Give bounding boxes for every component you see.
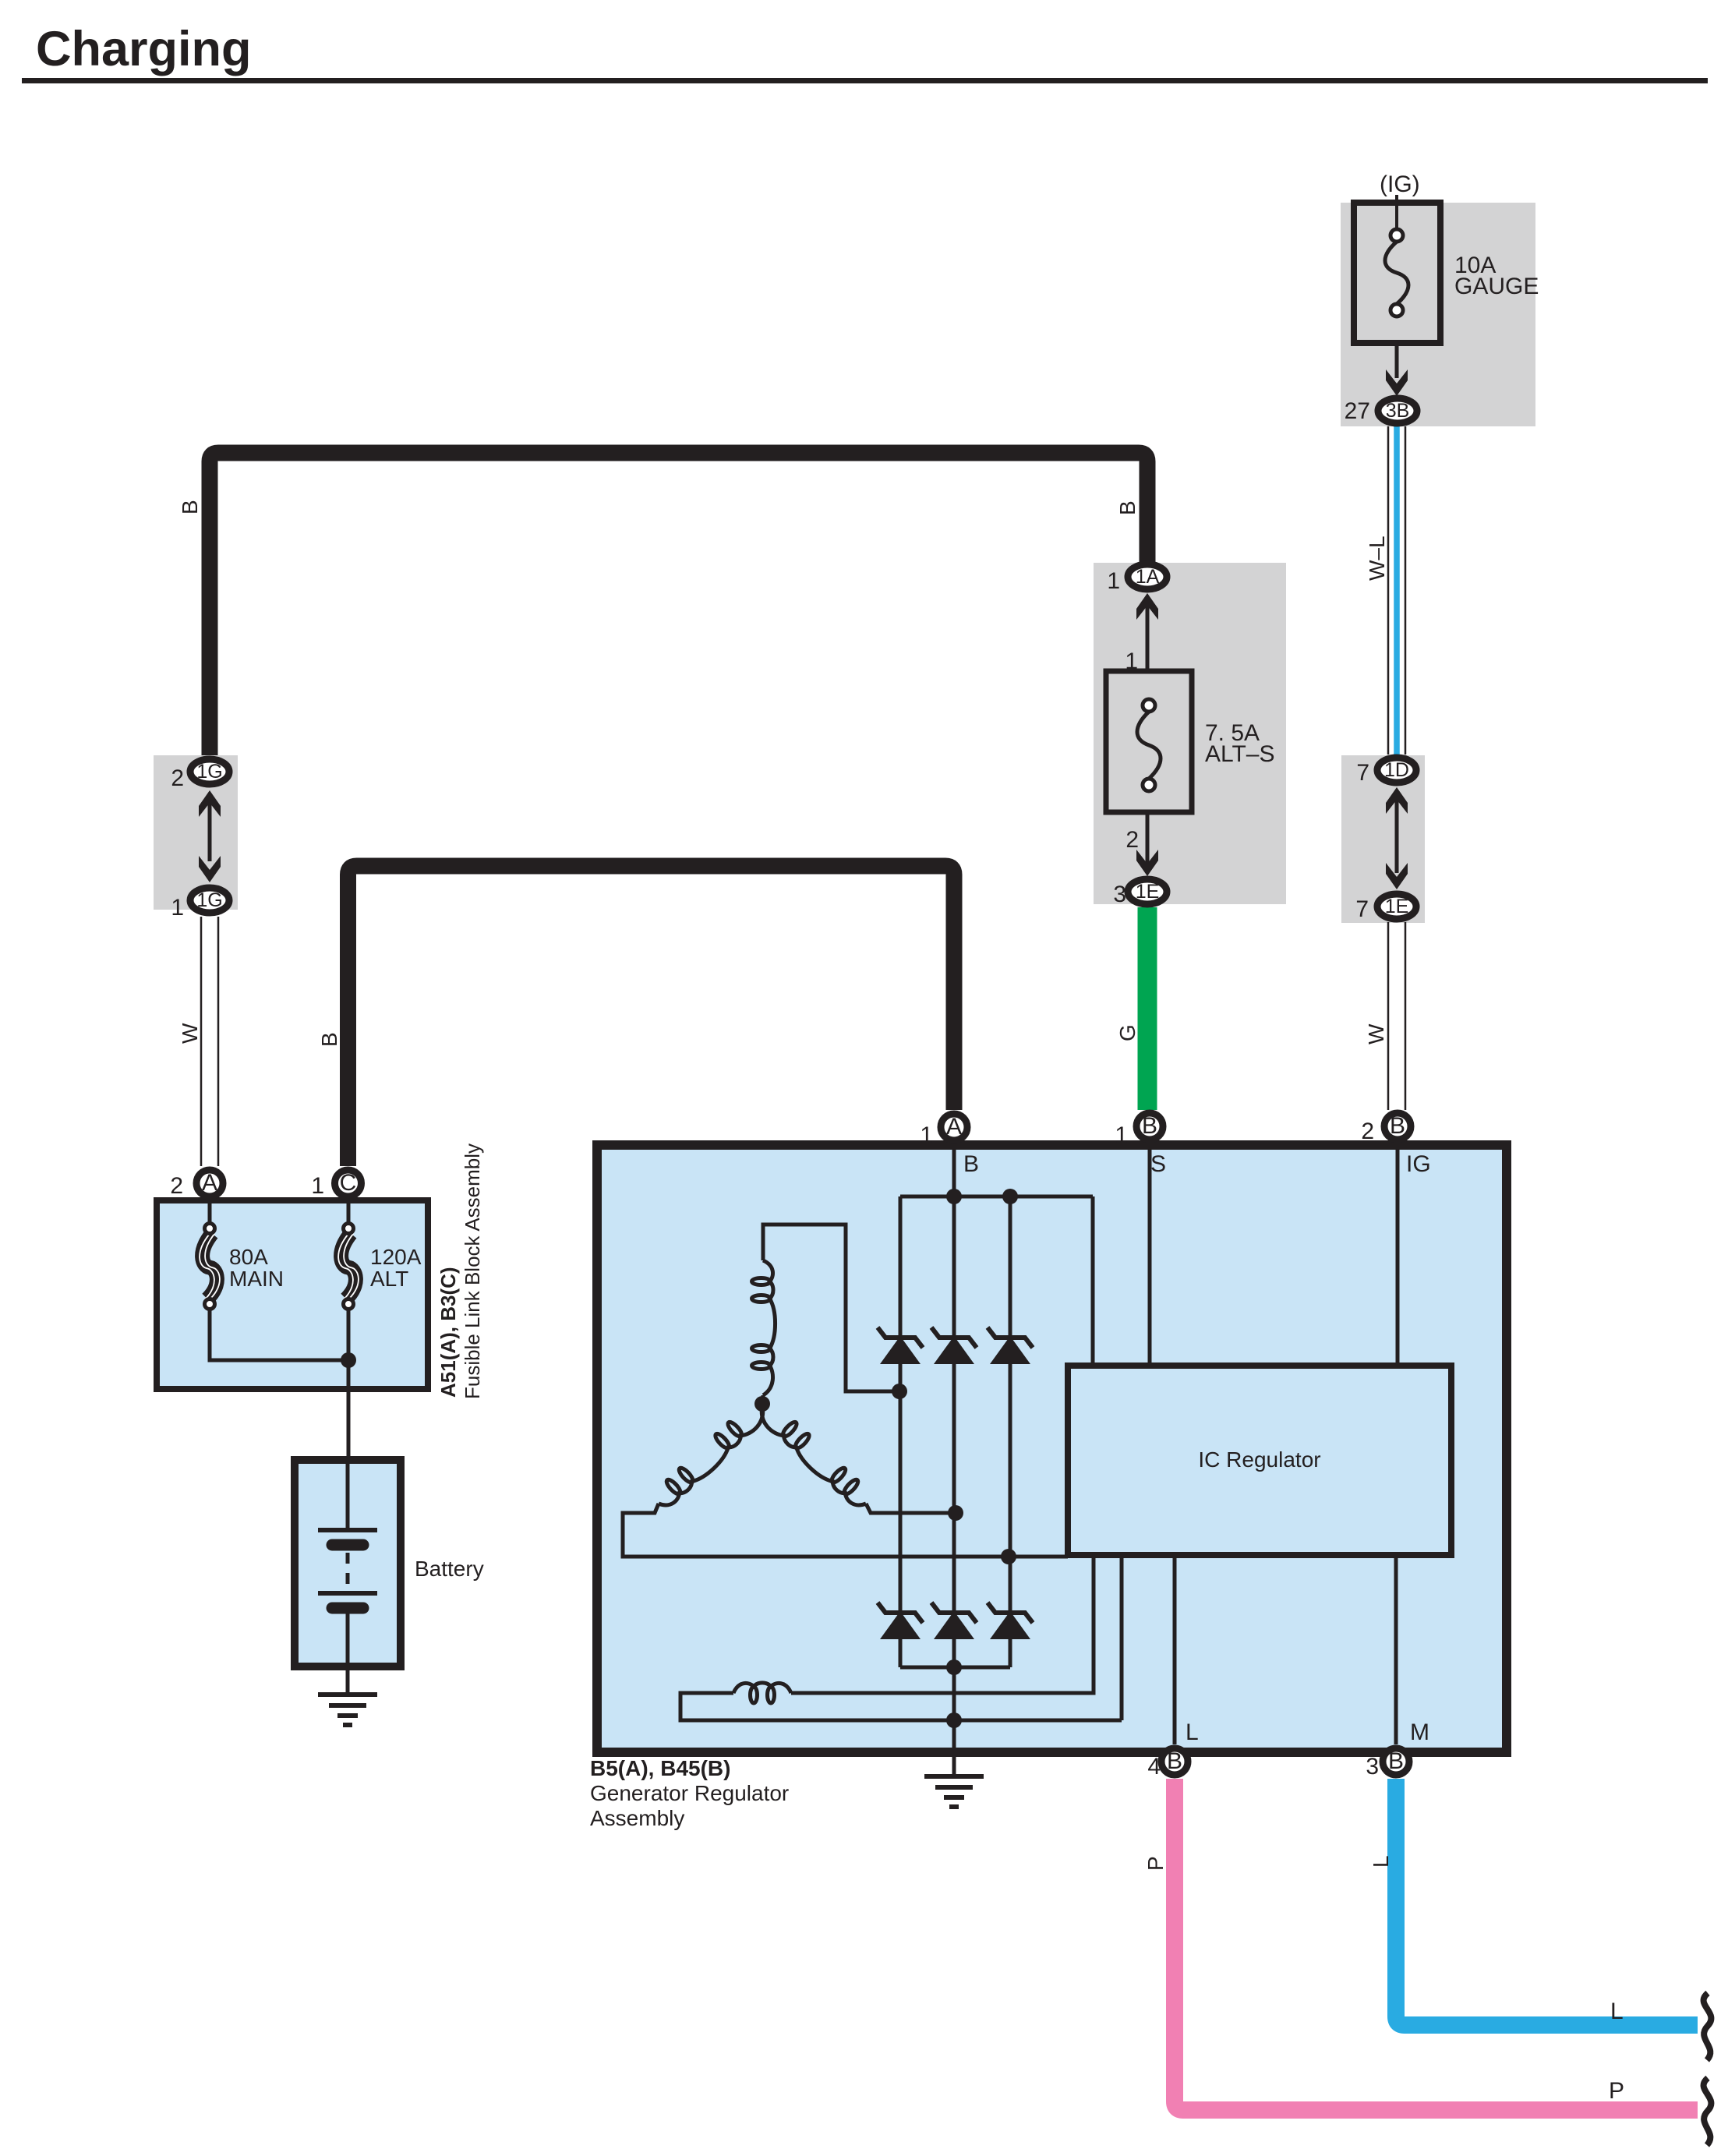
svg-text:80A: 80A [229,1245,268,1269]
svg-text:2: 2 [1125,827,1139,853]
svg-text:7: 7 [1356,760,1369,786]
svg-text:W: W [1364,1023,1388,1044]
svg-text:1D: 1D [1384,759,1409,781]
svg-text:IC Regulator: IC Regulator [1198,1447,1320,1472]
svg-text:Assembly: Assembly [590,1806,684,1830]
svg-text:1: 1 [171,895,184,921]
svg-text:2: 2 [1361,1119,1374,1144]
svg-text:L: L [1369,1855,1393,1868]
svg-text:B: B [1390,1113,1405,1139]
svg-text:3: 3 [1113,882,1126,907]
svg-text:1E: 1E [1385,896,1409,917]
svg-text:1E: 1E [1136,881,1160,903]
svg-text:3: 3 [1366,1754,1379,1780]
svg-text:4: 4 [1147,1754,1161,1780]
svg-text:P: P [1143,1856,1168,1871]
svg-text:P: P [1609,2078,1624,2104]
svg-text:B: B [1142,1113,1157,1139]
svg-text:W: W [178,1023,202,1044]
svg-text:ALT–S: ALT–S [1205,741,1275,767]
svg-text:1: 1 [311,1173,324,1199]
svg-text:Battery: Battery [415,1557,484,1581]
svg-text:27: 27 [1345,398,1370,424]
svg-text:GAUGE: GAUGE [1454,274,1539,299]
svg-text:Fusible Link Block Assembly: Fusible Link Block Assembly [461,1143,484,1399]
svg-text:3B: 3B [1386,400,1410,422]
svg-text:2: 2 [171,765,184,791]
svg-text:IG: IG [1406,1151,1431,1177]
svg-text:L: L [1186,1719,1199,1745]
svg-text:B: B [1115,500,1140,515]
svg-text:1A: 1A [1136,566,1160,588]
svg-text:7: 7 [1355,896,1369,922]
svg-text:1: 1 [920,1122,933,1148]
svg-text:(IG): (IG) [1380,171,1420,197]
svg-text:ALT: ALT [370,1267,408,1291]
svg-text:1: 1 [1107,568,1120,594]
svg-text:Generator Regulator: Generator Regulator [590,1781,789,1805]
svg-text:B5(A), B45(B): B5(A), B45(B) [590,1756,730,1780]
svg-text:W–L: W–L [1365,535,1389,581]
svg-text:C: C [340,1170,357,1196]
svg-text:B: B [317,1032,341,1047]
svg-text:G: G [1115,1024,1140,1041]
svg-text:B: B [1388,1748,1404,1774]
svg-text:L: L [1610,1999,1624,2024]
svg-text:B: B [1167,1748,1182,1774]
svg-text:MAIN: MAIN [229,1267,284,1291]
svg-text:1G: 1G [196,761,222,783]
svg-text:M: M [1410,1719,1429,1745]
svg-text:1G: 1G [196,889,222,911]
svg-text:B: B [178,500,202,514]
svg-text:A: A [946,1114,962,1140]
svg-text:120A: 120A [370,1245,422,1269]
svg-text:Charging: Charging [36,22,252,76]
svg-text:S: S [1150,1151,1166,1177]
svg-text:A51(A), B3(C): A51(A), B3(C) [436,1267,460,1398]
svg-text:A: A [202,1170,217,1196]
svg-text:2: 2 [170,1173,183,1199]
svg-text:1: 1 [1115,1122,1128,1148]
svg-text:B: B [963,1151,979,1177]
